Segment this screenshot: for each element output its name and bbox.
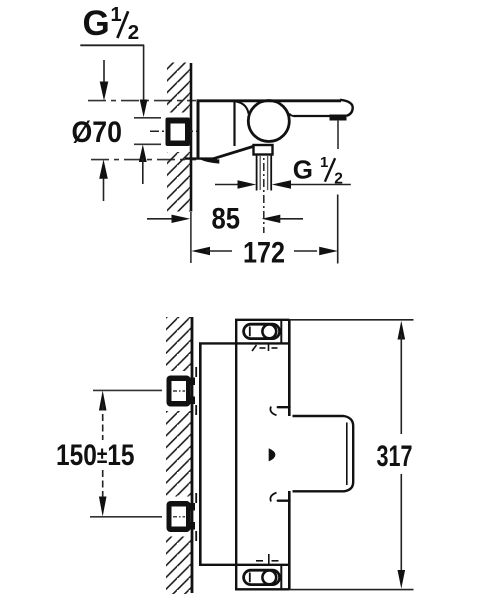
svg-text:G: G (83, 4, 110, 43)
fillet block-to-circle (236, 102, 249, 115)
dim 150 line: bottom arrow (down) (102, 470, 104, 503)
fillet circle-to-spout (289, 114, 295, 117)
knob circle U (248, 101, 289, 142)
pipe left arrow (points right) (215, 184, 242, 186)
G1/2 leader line + arrow to nut top (143, 45, 145, 104)
dim 150 bottom extension line (90, 516, 167, 518)
extension line bottom of escutcheon (D70 bottom) (91, 159, 196, 161)
top union block (235, 319, 290, 321)
white clearance around nut (159, 113, 190, 153)
plate right edge (upper segment) (288, 320, 291, 417)
outlet collar (254, 145, 273, 155)
nut centerline (top view) (150, 130, 200, 132)
wall hatch (bottom view) (166, 317, 191, 594)
bottom block marks (256, 554, 279, 566)
dim 172 right extension line (337, 195, 339, 264)
svg-text:150±15: 150±15 (56, 439, 135, 472)
escutcheon bottom edge (185, 157, 217, 159)
body column left edge (235, 320, 237, 590)
white clearance around nuts (162, 371, 191, 411)
dim 317 top extension line (290, 319, 414, 321)
label G1/2 middle (293, 154, 343, 188)
spout (plan view) (293, 416, 354, 491)
outlet pipe centerline (263, 147, 265, 233)
dim 85 left arrow (147, 218, 175, 220)
union flange bits nut2 (195, 493, 197, 503)
top block marks (252, 345, 278, 352)
D70 bottom arrow (up) (103, 173, 105, 201)
spout bottom shoulder (278, 500, 290, 502)
label G1/2 top-left (83, 4, 140, 44)
svg-text:2: 2 (128, 21, 139, 44)
svg-text:Ø70: Ø70 (72, 116, 123, 149)
dim 85 right arrow (262, 215, 281, 223)
bottom union block (235, 588, 290, 590)
dim 317 line + arrows (398, 321, 406, 340)
dim 172 right arrow (294, 250, 317, 252)
plate left edge (199, 343, 202, 565)
dim 172 left arrow (191, 247, 210, 255)
dim 150 top extension line (93, 389, 167, 391)
nut top extension line (134, 117, 161, 119)
bottom lip wedge (200, 159, 219, 163)
svg-text:G: G (293, 155, 313, 185)
spout end cap (340, 100, 353, 116)
dim 317 bottom extension line (290, 589, 414, 591)
body top edge (197, 99, 342, 102)
plate right edge (lower segment) (288, 491, 291, 590)
wall face extension line (below wall) (190, 212, 192, 263)
extension line top of escutcheon (D70 top) (88, 100, 196, 102)
nut bottom arrow (up) (139, 144, 147, 162)
plate top edge (199, 342, 290, 344)
body bottom diagonal (213, 146, 255, 159)
temperature button (269, 448, 276, 461)
wall hatch (top view) (167, 63, 191, 212)
union flange bits nut1 (195, 367, 197, 377)
body block right edge (233, 101, 235, 146)
bottom keyhole slot (244, 570, 280, 584)
svg-text:172: 172 (243, 236, 285, 269)
union nut (side view) (166, 118, 191, 147)
svg-text:1: 1 (111, 4, 122, 26)
outlet pipe walls (256, 155, 258, 191)
nut bottom extension line (134, 143, 161, 145)
spout top shoulder (278, 406, 290, 408)
svg-text:1: 1 (320, 154, 328, 171)
svg-text:85: 85 (212, 202, 241, 235)
aerator leader line (337, 121, 339, 149)
union nut 1 (front view) (167, 376, 196, 407)
wall face line (bottom view) (191, 317, 194, 593)
spout end inner line (346, 423, 348, 486)
G1/2 mid underline + left arrow (288, 184, 351, 186)
wall face line (top view) (190, 63, 193, 212)
G1/2 top-left underline (80, 44, 144, 46)
escutcheon flange edge (197, 101, 200, 159)
dim 150 line: top arrow (up) (99, 390, 107, 410)
plate bottom edge (199, 564, 290, 566)
outlet pipe inner lines (259, 155, 261, 190)
aerator (330, 115, 347, 121)
spout bottom edge (294, 115, 331, 117)
top keyhole slot (244, 324, 280, 338)
D70 top arrow (down) (103, 60, 105, 88)
union nut 2 (front view) (167, 501, 196, 532)
svg-text:317: 317 (377, 440, 413, 473)
